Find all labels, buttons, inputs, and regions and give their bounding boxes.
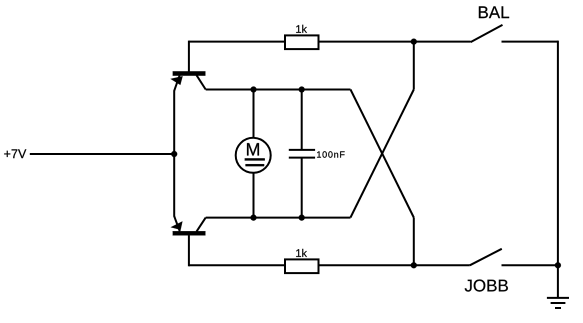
transistor Q1 emitter arrow [171,76,183,85]
capacitor C1 top plate [289,149,315,151]
wire right vertical upper (to top rail) [413,42,415,90]
wire JOBB right contact [502,264,558,266]
transistor Q1 base bar [173,71,206,75]
wire +7V horizontal [30,153,174,155]
transistor Q2 emitter leg [174,216,180,231]
junction dot capacitor bottom [299,215,305,221]
wire motor top lead [253,90,255,139]
motor underline 1 [245,158,265,160]
wire right edge vertical [557,41,559,298]
resistor R2 value 1k [296,249,307,257]
capacitor value 100nF [317,151,345,157]
switch BAL label [479,6,509,18]
motor M letter [247,143,259,155]
wire cross diagonal A [351,90,414,218]
ground bar 1 [547,297,569,299]
wire motor bottom lead [253,172,255,218]
ground bar 2 [551,302,566,304]
wire +7V supply vertical (emitter bus) [173,91,175,217]
node +7V label [4,149,26,158]
wire right vertical lower (to bottom rail) [413,218,415,266]
switch BAL lever [471,25,503,42]
junction dot capacitor top [299,87,305,93]
wire top rail [189,41,471,43]
wire bottom node rail [206,217,351,219]
motor underline 2 [246,164,265,166]
switch JOBB label [465,280,508,292]
capacitor C1 bottom plate [289,157,315,159]
transistor Q2 emitter arrow [171,221,183,229]
transistor Q2 collector leg [197,218,206,232]
junction dot JOBB right [555,262,561,268]
resistor R1 body [285,35,319,49]
wire Q2 base lead [188,235,190,266]
wire cross diagonal B [351,90,414,218]
wire top node rail [206,89,351,91]
junction dot top rail [411,39,417,45]
transistor Q1 emitter leg [174,75,179,90]
wire capacitor top lead [301,90,303,151]
switch JOBB lever [470,249,502,265]
wire bottom rail [189,264,470,266]
transistor Q1 collector leg [197,75,206,89]
junction dot +7V node [171,151,177,157]
junction dot motor top [251,87,257,93]
wire BAL right contact [502,41,558,43]
wire capacitor bottom lead [301,158,303,218]
wire Q1 base lead [188,41,190,72]
resistor R2 body [285,259,319,273]
ground bar 3 [555,307,561,309]
junction dot bottom rail [411,262,417,268]
transistor Q2 base bar [173,231,206,235]
resistor R1 value 1k [296,25,307,33]
motor M circle [236,138,271,173]
junction dot motor bottom [251,215,257,221]
